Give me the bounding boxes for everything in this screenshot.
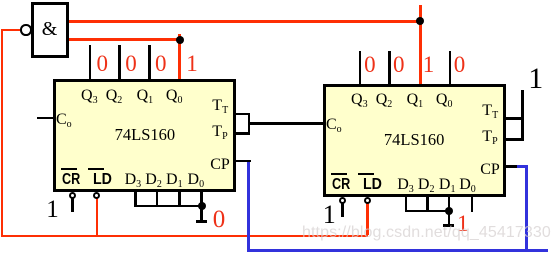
U2 pin label TT [482,103,498,121]
junction dot on U2 Q1 wire [416,17,424,25]
wire: U2 Q2 lead [388,51,391,84]
wire: carry to U2 Co [250,122,323,125]
U1 pin label Q1 [137,88,154,106]
NAND gate G1 body [31,2,69,58]
wire: U1 Q3 lead [89,45,92,79]
wire: branch up to U2 LD pin [366,203,369,235]
wire: U1 TT stub [236,113,250,116]
wire: U1 D drop to low bar [200,207,203,220]
U2 D constant 1 label [457,212,469,235]
wire: blue clock vertical from U1 CP [247,162,250,252]
wire: U1 Q0 vertical lead [178,34,181,78]
U2 pin label TP [482,129,497,147]
wire: U2 Q3 lead [359,51,362,84]
terminal bar U2 D constant [443,224,454,227]
U2 CR logic 1 label [323,202,336,228]
U2 pin label Q2 [376,92,393,110]
U1 Q1 state digit 0 [155,52,167,75]
U1 Q3 state digit 0 [96,52,108,75]
watermark [302,225,551,241]
U1 LD pin bubble [93,192,100,199]
U2 Q1 state digit 1 [423,53,435,76]
U2 pin label LD [363,177,382,193]
wire: U2 D1 lead [448,197,451,212]
wire: U2 D3 lead [405,197,408,212]
U2 pin label D3 [397,177,414,195]
wire: U2 D drop to high bar [448,212,451,224]
U2 pin label CP [480,162,500,178]
U1 pin label CR [62,172,80,188]
NAND gate G1 output bubble [20,24,31,35]
U1 CR logic 1 label [46,197,59,222]
U1 Q0 state digit 1 [186,52,198,75]
U2 pin label CR [332,177,350,193]
U2 pin label D0 [459,177,476,195]
wire: U1 D bus [134,205,203,208]
U1 pin label Q3 [81,88,98,106]
wire: U1 Co stub [37,117,53,120]
wire: U2 TT/TP tie vertical to logic 1 [521,90,524,141]
counter U1 74LS160 body [53,79,236,193]
wire: TT-TP bracket vertical [248,113,251,135]
wire: U2 CR pin [341,203,344,217]
U2 LD overline [358,173,374,175]
wire: U2 D0 lead [471,197,474,211]
wire: U2 D2 lead [426,197,429,212]
U2 pin label Q1 [407,92,424,110]
U2 CR overline [331,173,348,175]
wire: branch up to U1 LD pin [96,198,99,235]
counter U2 74LS160 body [323,84,507,197]
U1 part number [115,127,176,144]
U2 pin label Q3 [351,92,368,110]
wire: U1 CR pin [71,198,74,212]
wire: U1 Q1 lead [148,45,151,79]
U2 Q0 state digit 0 [454,53,466,76]
wire: feedback bottom horizontal to LD pins [1,235,369,238]
U2 part number [384,132,445,149]
U2 Q3 state digit 0 [364,53,376,76]
wire: U1 TP stub [236,132,250,135]
U1 pin label D1 [166,172,183,190]
wire: U2 TP stub [506,138,522,141]
wire: NAND upper input horizontal from U2 Q1 [69,20,422,23]
U2 LD pin bubble [364,197,371,204]
junction dot U2 D1 [445,207,453,215]
wire: U2 D bus D3-D1 [405,210,450,213]
U1 pin label D2 [145,172,162,190]
U2 pin label D2 [418,177,435,195]
U1 pin label TT [212,98,228,116]
NAND gate G1 symbol [42,19,58,39]
junction dot U1 D0 [198,202,206,210]
wire: U1 Q2 lead [118,45,121,79]
U1 D constant 0 label [213,207,226,232]
U1 CR overline [61,168,78,170]
wire: blue clock bottom horizontal [247,249,548,252]
U1 LD overline [88,168,104,170]
wire: U1 D3 lead [134,192,137,207]
U1 Q2 state digit 0 [125,52,137,75]
U2 Q2 state digit 0 [393,53,405,76]
wire: NAND output left horizontal [1,29,21,32]
wire: U1 D2 lead [156,192,159,207]
U1 pin label Q0 [166,88,183,106]
wire: U1 D0 lead [200,192,203,207]
U1 pin label D3 [125,172,142,190]
U2 pin label Q0 [436,92,453,110]
wire: NAND lower input horizontal from U1 Q0 [69,38,181,41]
terminal bar U1 D constant [196,220,206,223]
wire: U2 CP stub [506,165,518,168]
U1 pin label Q2 [106,88,123,106]
U1 pin label LD [93,172,112,188]
wire: U2 TT stub [506,117,522,120]
wire: U2 Q1 vertical lead [419,5,422,84]
U2 pin label D1 [439,177,456,195]
U1 pin label CP [210,157,230,173]
U2 CR pin bubble [339,197,346,204]
wire: blue stub into U2 CP [517,165,528,168]
U1 pin label D0 [188,172,205,190]
wire: U1 CP stub [236,160,251,163]
U2 TT/TP logic 1 label [528,64,543,94]
U1 pin label TP [212,124,227,142]
U1 pin label Co [56,112,72,130]
wire: U1 D1 lead [178,192,181,207]
junction dot on U1 Q0 wire [176,36,184,44]
wire: blue clock vertical to U2 CP [525,165,528,252]
U1 CR pin bubble [69,192,76,199]
wire: U2 Q0 lead [449,51,452,84]
wire: feedback left vertical [1,29,4,238]
U2 pin label Co [326,117,342,135]
